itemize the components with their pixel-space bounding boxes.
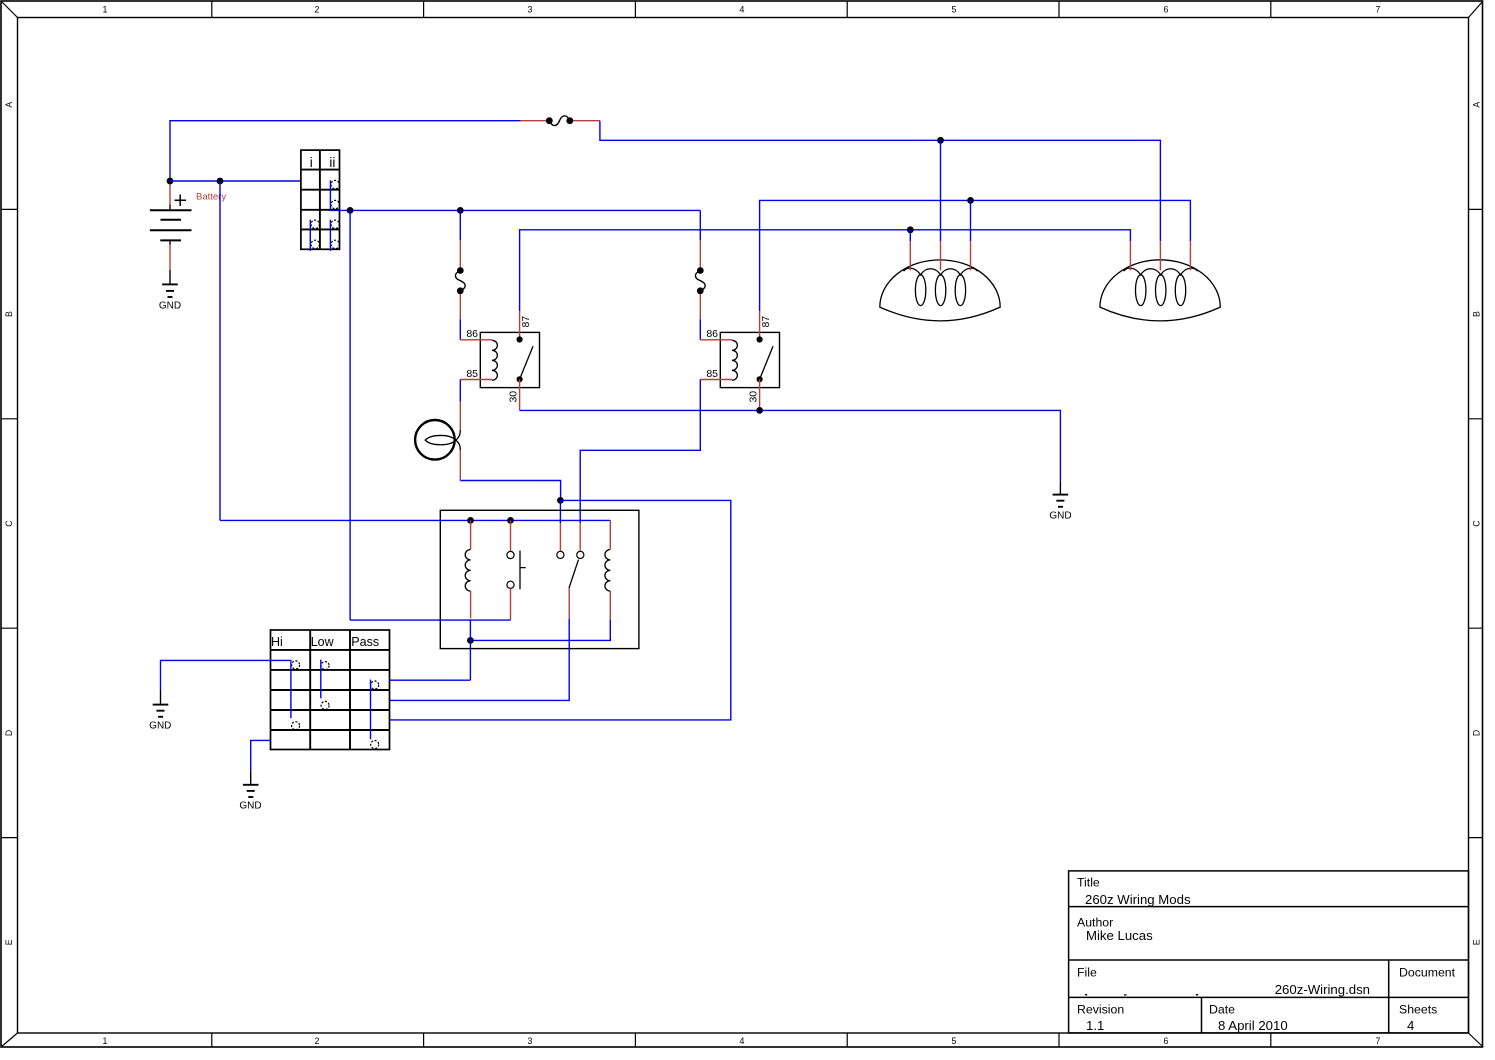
wire connector feed to switch bottoms (350, 619, 510, 621)
wire relay K2 87 to headlamp right pins (760, 200, 1191, 311)
svg-text:4: 4 (1407, 1018, 1414, 1033)
wire node to column switch row5 (390, 500, 731, 720)
headlamp L2 (1100, 260, 1220, 321)
wire battery+ to fuse F1 (net 12V) (170, 121, 521, 181)
coil W2 (U1 right winding) (605, 520, 610, 620)
svg-text:5: 5 (952, 1036, 957, 1046)
svg-text:D: D (1472, 730, 1482, 736)
svg-text:Battery: Battery (196, 192, 226, 203)
svg-text:File: File (1077, 966, 1097, 980)
svg-text:260z-Wiring.dsn: 260z-Wiring.dsn (1275, 982, 1370, 997)
svg-text:Pass: Pass (351, 635, 379, 649)
svg-text:E: E (4, 939, 14, 945)
svg-text:260z Wiring Mods: 260z Wiring Mods (1085, 892, 1191, 907)
svg-text:7: 7 (1376, 5, 1381, 15)
wire coil W2 bottom to junction (470, 620, 610, 640)
svg-text:i: i (310, 155, 313, 170)
connector P1 pin circles (311, 180, 339, 248)
svg-text:B: B (4, 311, 14, 317)
svg-text:85: 85 (466, 368, 478, 380)
headlamp L1 pins (910, 241, 970, 270)
svg-text:4: 4 (740, 1036, 745, 1046)
wire relays 30 common to ground (520, 410, 1061, 481)
svg-text:4: 4 (740, 5, 745, 15)
relay K2 (700, 311, 779, 410)
svg-text:Title: Title (1077, 876, 1100, 890)
junction coil W1 return (467, 620, 474, 680)
svg-text:GND: GND (239, 801, 261, 812)
svg-text:86: 86 (706, 328, 718, 340)
wire fuse F1 to headlamp feed (600, 121, 1161, 241)
connector P1 (i / ii) (301, 150, 340, 249)
wire relay K1 85 to lamp (459, 380, 461, 402)
svg-text:ii: ii (329, 155, 335, 170)
svg-text:C: C (1472, 520, 1482, 527)
svg-text:2: 2 (315, 1036, 320, 1046)
junction headlamp L1 left pin (907, 226, 914, 241)
svg-text:D: D (4, 730, 14, 736)
svg-text:A: A (4, 102, 14, 108)
wire dip blade to column switch row4 (390, 619, 569, 701)
svg-text:6: 6 (1164, 1036, 1169, 1046)
svg-text:B: B (1472, 311, 1482, 317)
svg-text:1: 1 (103, 1036, 108, 1046)
svg-text:2: 2 (315, 5, 320, 15)
wire relay K2 85 to column switch (580, 380, 700, 524)
changeover switch SW2 (dip) (557, 523, 584, 619)
svg-text:Hi: Hi (271, 635, 283, 649)
junction relay K2 30 (756, 407, 763, 414)
svg-text:Low: Low (311, 635, 335, 649)
svg-text:30: 30 (507, 391, 519, 403)
svg-text:Sheets: Sheets (1399, 1003, 1437, 1017)
svg-text:6: 6 (1164, 5, 1169, 15)
headlamp L1 (880, 260, 1000, 321)
connector P1 internal wire stubs (310, 180, 330, 251)
battery BT1 (150, 181, 192, 270)
title block (1069, 871, 1469, 1033)
junction node to lighting switch coils (217, 178, 224, 521)
wire connector to relay coils feed (330, 209, 701, 211)
ground GND (headlamp return) (1053, 481, 1069, 507)
svg-text:Document: Document (1399, 966, 1456, 980)
coil W1 (U1 left winding) (465, 520, 470, 618)
lamp LP1 (indicator) (415, 402, 460, 481)
svg-text:C: C (4, 520, 14, 527)
svg-text:30: 30 (747, 391, 759, 403)
wire lamp to dip switch (460, 481, 560, 501)
wire to column switch row3 (Pass) (390, 679, 471, 681)
wire battery+ to connector P1 (170, 180, 301, 182)
junction coil W1 top (467, 517, 474, 524)
svg-text:A: A (1472, 102, 1482, 108)
column switch S1 (Hi/Low/Pass) (271, 630, 390, 750)
svg-text:Mike Lucas: Mike Lucas (1086, 928, 1153, 943)
svg-text:87: 87 (520, 316, 532, 328)
wire relay K1 87 to headlamp left pins (520, 230, 1131, 311)
junction battery+ node (167, 178, 174, 185)
svg-text:GND: GND (1049, 510, 1071, 521)
svg-text:1.1: 1.1 (1086, 1018, 1104, 1033)
svg-text:E: E (1472, 939, 1482, 945)
lighting switch box U1 (440, 510, 639, 648)
junction headlamp L1 right pin (967, 197, 974, 241)
svg-text:8 April 2010: 8 April 2010 (1218, 1018, 1288, 1033)
svg-text:85: 85 (706, 368, 718, 380)
svg-text:Date: Date (1209, 1003, 1235, 1017)
column switch pin circles (292, 661, 379, 749)
fuse F3 (695, 240, 705, 319)
junction push switch top (507, 517, 514, 524)
svg-text:87: 87 (760, 316, 772, 328)
headlamp L2 pins (1130, 241, 1190, 270)
svg-text:3: 3 (528, 5, 533, 15)
svg-text:1: 1 (103, 5, 108, 15)
wire coil feed inside U1 (220, 519, 610, 521)
svg-text:GND: GND (149, 720, 171, 731)
junction fuse F2 branch (457, 207, 464, 240)
ground GND (battery) (162, 270, 178, 297)
junction headlamp L1 mid feed (937, 137, 944, 241)
fuse F1 (521, 116, 600, 126)
svg-text:86: 86 (466, 328, 478, 340)
svg-text:5: 5 (952, 5, 957, 15)
wire row6 to ground (251, 740, 271, 770)
ground GND (column switch) (243, 770, 259, 797)
relay K1 (460, 311, 539, 410)
wire fuse F3 to relay K2 pin 86 (699, 319, 701, 340)
svg-text:7: 7 (1376, 1036, 1381, 1046)
clipped descender marks in File row (1085, 994, 1198, 996)
junction connector output (347, 207, 354, 620)
ground GND (Hi) (153, 690, 169, 717)
svg-text:Revision: Revision (1077, 1003, 1124, 1017)
column switch internal stubs (291, 660, 371, 740)
junction dip relay node (557, 497, 564, 523)
wire Hi row to ground (161, 660, 292, 690)
svg-text:GND: GND (159, 301, 181, 312)
wire fuse F2 to relay K1 pin 86 (459, 319, 461, 340)
svg-text:3: 3 (528, 1036, 533, 1046)
fuse F2 (455, 240, 465, 319)
push switch SW1 (flash) (507, 520, 526, 620)
wire fuse F3 branch (699, 210, 701, 240)
